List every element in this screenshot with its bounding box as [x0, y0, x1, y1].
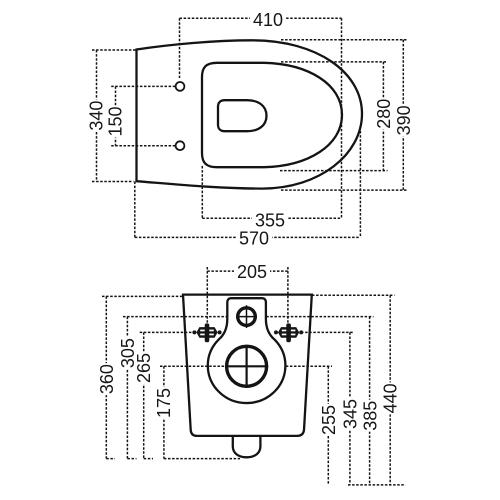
svg-text:570: 570: [239, 228, 269, 248]
svg-text:360: 360: [97, 364, 117, 394]
svg-text:205: 205: [237, 262, 267, 282]
svg-text:255: 255: [319, 405, 339, 435]
svg-text:410: 410: [253, 10, 283, 30]
svg-text:385: 385: [360, 401, 380, 431]
svg-text:355: 355: [255, 210, 285, 230]
svg-text:390: 390: [394, 105, 414, 135]
svg-text:340: 340: [86, 101, 106, 131]
svg-text:345: 345: [340, 399, 360, 429]
svg-text:175: 175: [154, 388, 174, 418]
svg-text:265: 265: [134, 353, 154, 383]
svg-text:150: 150: [105, 106, 125, 136]
svg-text:440: 440: [380, 383, 400, 413]
svg-text:280: 280: [374, 99, 394, 129]
